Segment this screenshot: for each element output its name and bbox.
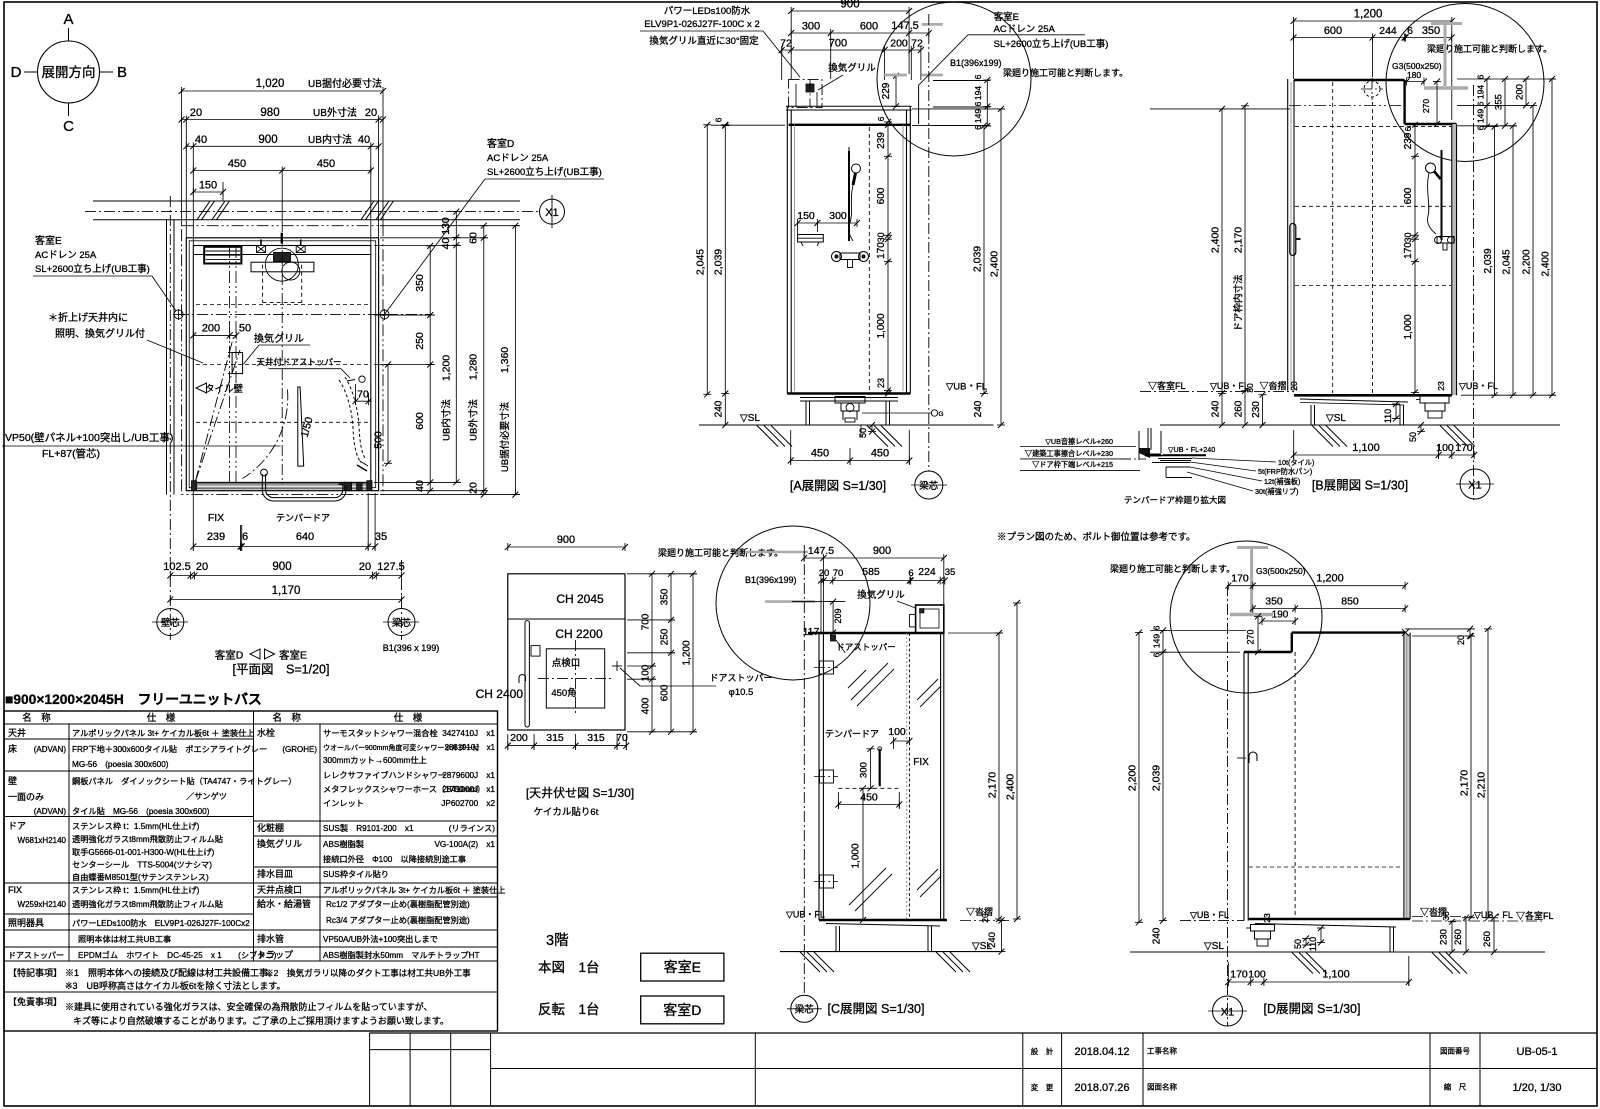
C 300 dim [870,749,872,789]
interior panel joint dashed [868,127,870,391]
C B1 beam gray [745,551,808,554]
svg-text:40: 40 [195,134,207,146]
svg-text:▽客室FL: ▽客室FL [1148,380,1186,391]
D corner mark [1402,629,1409,636]
svg-text:※2 換気ガラリ以降のダクト工事は材工共UB外工事: ※2 換気ガラリ以降のダクト工事は材工共UB外工事 [265,967,471,978]
B top dim 1200 [1294,20,1452,22]
svg-text:229: 229 [881,82,892,99]
svg-text:照明本体は材工共UB工事: 照明本体は材工共UB工事 [78,934,171,944]
svg-text:1,000: 1,000 [876,313,887,338]
svg-text:300: 300 [802,21,820,33]
svg-text:200: 200 [510,732,528,744]
table left-half horizontals [4,738,254,740]
valve brackets [257,246,266,253]
G mark at A drain [931,410,937,416]
svg-text:10t(タイル): 10t(タイル) [1278,458,1314,467]
D dim 190 [1262,620,1295,622]
svg-text:3階: 3階 [546,932,569,949]
svg-text:270: 270 [1421,99,1431,113]
svg-text:2,400: 2,400 [1541,251,1552,276]
svg-text:2,170: 2,170 [987,772,999,798]
svg-text:350: 350 [1265,596,1283,608]
D left dims 6/149/6 [1162,631,1164,653]
svg-text:排水目皿: 排水目皿 [257,868,293,879]
svg-text:図面名称: 図面名称 [1147,1082,1177,1092]
svg-text:240: 240 [973,400,984,417]
door swing arc dash-dot [243,390,288,479]
B X1 circle [1473,85,1475,500]
C cabin [808,632,944,634]
svg-text:B1(396x199): B1(396x199) [950,58,1002,68]
svg-text:▽SL: ▽SL [972,941,992,952]
D G3 beam gray [1250,547,1253,613]
svg-text:50: 50 [858,428,868,438]
plan bottom door wall gray band [196,484,368,489]
svg-text:20: 20 [196,561,208,573]
svg-text:2,210: 2,210 [1476,772,1488,798]
plan right chain C 60/1280/20 UB外寸法 [483,226,485,495]
svg-text:6: 6 [1403,126,1413,131]
svg-text:[C展開図 S=1/30]: [C展開図 S=1/30] [828,1002,925,1016]
A SL line [699,424,994,426]
svg-text:換気グリル直近に30°固定: 換気グリル直近に30°固定 [649,35,759,47]
wall panel inner lines [189,241,376,488]
svg-text:▽建築工事擦合レベル+230: ▽建築工事擦合レベル+230 [1025,449,1113,458]
svg-text:【免責事項】: 【免責事項】 [8,996,62,1007]
svg-text:ドア枠内寸法: ドア枠内寸法 [1233,274,1245,331]
svg-text:天井付ドアストッパー: 天井付ドアストッパー [256,357,341,367]
B left wall (door edge) [1287,79,1289,391]
svg-text:23: 23 [1436,381,1446,391]
svg-text:355: 355 [1494,94,1505,110]
B door handle [1290,224,1296,256]
svg-text:ケイカル貼り6t: ケイカル貼り6t [534,806,599,818]
壁芯 centerline vertical [169,196,171,640]
svg-text:センターシール TTS-5004(ツナシマ): センターシール TTS-5004(ツナシマ) [72,861,212,870]
svg-text:2,045: 2,045 [695,249,707,275]
svg-text:20: 20 [190,107,202,119]
vent duct on roof [789,79,822,107]
ceiling plan bottom dims 200/315/315/70 [508,745,627,747]
C 450 dim with dashed level [838,787,900,789]
svg-text:30: 30 [1403,232,1413,242]
shower hose dashed [339,380,361,463]
plan dim 150 [193,191,223,193]
svg-text:700: 700 [641,613,652,630]
D left dims 2200/2039 [1138,633,1140,923]
svg-text:▽沓摺: ▽沓摺 [1260,380,1287,391]
svg-text:VP50(壁パネル+100突出し/UB工事): VP50(壁パネル+100突出し/UB工事) [5,431,173,444]
svg-text:換気グリル: 換気グリル [257,838,302,849]
svg-text:ドアストッパー: ドアストッパー [836,642,896,652]
plan centerline vertical dash-dot [281,236,283,488]
svg-text:ドア: ドア [8,821,26,831]
svg-text:反転 1台: 反転 1台 [538,1002,600,1017]
svg-text:名 称: 名 称 [273,712,302,724]
svg-text:SL+2600立ち上げ(UB工事): SL+2600立ち上げ(UB工事) [35,263,150,275]
B shower set [1441,150,1443,240]
plan right chain D 1360 UB据付必要寸法 [514,226,516,495]
svg-text:2,039: 2,039 [713,249,725,275]
svg-text:72: 72 [911,38,923,50]
svg-text:50: 50 [1293,939,1303,949]
A interior dim chain [887,122,889,394]
svg-text:透明強化ガラスt8mm飛散防止フィルム貼: 透明強化ガラスt8mm飛散防止フィルム貼 [72,834,223,844]
svg-text:1,280: 1,280 [468,354,480,380]
svg-text:600: 600 [660,684,671,701]
svg-text:200: 200 [1515,84,1526,100]
svg-text:110: 110 [1383,409,1393,423]
D 270 dim [1257,616,1259,652]
svg-text:900: 900 [840,0,859,11]
svg-text:換気グリル: 換気グリル [254,332,304,345]
A drain trap [835,397,865,404]
D X1 circle [1227,585,1229,1026]
title block left small cells [369,1033,371,1106]
svg-text:／サンゲツ: ／サンゲツ [186,791,227,801]
svg-text:タイル壁: タイル壁 [205,383,244,395]
X1 grid circle (plan right) [540,199,565,224]
svg-text:水栓: 水栓 [257,727,275,738]
svg-text:[D展開図 S=1/30]: [D展開図 S=1/30] [1264,1002,1361,1016]
svg-text:▽SL: ▽SL [1326,413,1346,424]
C vent grille box [916,605,944,633]
svg-text:6: 6 [242,531,248,543]
svg-text:70: 70 [833,568,844,579]
valve A [840,253,860,260]
svg-text:本図 1台: 本図 1台 [538,960,600,975]
hook [519,675,526,683]
A left dims 2045/2039 [706,125,708,395]
ceiling plan dim 900 [508,546,625,548]
svg-text:23: 23 [876,378,886,388]
svg-text:149: 149 [1152,634,1162,648]
svg-text:レレクサファイブハンドシャワー: レレクサファイブハンドシャワー [323,770,446,780]
svg-text:UB外寸法: UB外寸法 [313,106,357,119]
svg-text:230: 230 [1251,401,1262,418]
svg-text:147.5: 147.5 [808,545,834,557]
svg-text:パワーLEDs100防水 ELV9P1-026J27F-10: パワーLEDs100防水 ELV9P1-026J27F-100Cx2 [72,918,250,928]
D cabin ceiling with step [1244,651,1292,653]
svg-text:(ADVAN): (ADVAN) [34,807,67,816]
B bottom level labels [1140,391,1294,393]
svg-text:CH 2045: CH 2045 [556,592,604,606]
shower head A [852,164,861,173]
plan dim 20/980/20 UB外寸法 [182,119,383,121]
dim 150/300 A [798,222,857,224]
compass tick A [68,28,70,41]
svg-text:240: 240 [714,400,725,417]
svg-text:5t(FRP防水パン): 5t(FRP防水パン) [1258,467,1312,476]
客室E box [641,953,724,981]
svg-text:260: 260 [1482,931,1493,947]
svg-text:1,200: 1,200 [1316,573,1344,585]
svg-text:壁: 壁 [8,775,17,786]
D interior dashed [1294,652,1296,919]
svg-text:147.5: 147.5 [891,20,919,32]
svg-text:40: 40 [358,134,370,146]
svg-text:1,200: 1,200 [1354,9,1383,21]
svg-text:梁廻り施工可能と判断します。: 梁廻り施工可能と判断します。 [1003,67,1128,78]
table verticals [68,724,70,961]
svg-text:239: 239 [876,132,887,149]
svg-text:35: 35 [945,567,956,578]
drain channel line along top [193,254,370,256]
wall hatch marks left [197,201,210,220]
B interior chain [1414,125,1416,393]
svg-text:G: G [938,411,943,418]
svg-text:図面番号: 図面番号 [1440,1046,1470,1056]
svg-text:20: 20 [1456,635,1466,645]
C top dim 147.5/900 [804,557,944,559]
C 209 dim [832,602,834,633]
layer leaders [1192,458,1276,462]
svg-text:900: 900 [258,134,277,146]
svg-text:(GROHE): (GROHE) [282,745,317,754]
svg-text:UB-05-1: UB-05-1 [1517,1046,1558,1058]
svg-text:6: 6 [1407,25,1413,37]
svg-text:240: 240 [1211,400,1222,417]
plan dim 450/450 [193,170,370,172]
svg-text:239: 239 [207,531,225,543]
floor layer lines [1146,455,1206,457]
inspection hatch 450角 [546,649,604,708]
svg-text:アルポリックパネル 3t+ ケイカル板6t ＋ 塗装仕上: アルポリックパネル 3t+ ケイカル板6t ＋ 塗装仕上 [72,728,254,738]
svg-text:梁芯: 梁芯 [919,480,939,492]
svg-text:A: A [63,11,73,28]
svg-text:20: 20 [468,482,480,494]
svg-text:2,170: 2,170 [1459,770,1471,796]
svg-text:980: 980 [260,107,279,119]
svg-text:350: 350 [660,588,671,605]
500 dim interior [387,365,389,464]
interior ceiling thick line [789,124,911,126]
svg-text:35: 35 [375,531,387,543]
svg-text:VG-100A(2) x1: VG-100A(2) x1 [434,840,495,849]
UB envelope rect (dash-dot-dot) [182,226,383,495]
C dim 20/70/585/6/224/35 [821,580,945,582]
wall hatch marks right [361,201,374,220]
svg-text:20: 20 [819,568,830,579]
svg-text:6: 6 [876,116,886,121]
壁芯 grid circle [157,609,184,636]
svg-text:UB外寸法: UB外寸法 [468,399,480,441]
door stopper cross [612,665,622,667]
ドアストッパー φ10.5 leader [620,668,640,686]
svg-text:取手G5666-01-001-H300-W(HL仕上げ): 取手G5666-01-001-H300-W(HL仕上げ) [72,847,215,857]
svg-text:209: 209 [833,608,843,623]
A right dims 2039/2400 [983,126,985,394]
svg-text:224: 224 [918,566,936,578]
spec table frame [4,711,498,1031]
D walls [1405,634,1410,918]
svg-text:6: 6 [908,568,913,579]
C hinges [820,661,834,674]
svg-text:50: 50 [239,323,251,335]
svg-text:127.5: 127.5 [377,561,405,573]
C glass hatch marks FIX [917,679,938,700]
svg-text:2,200: 2,200 [1127,765,1139,791]
svg-text:客室E: 客室E [664,959,701,975]
C glass hatch marks door [851,663,888,700]
svg-text:UB内寸法: UB内寸法 [308,133,352,146]
svg-text:270: 270 [1246,629,1256,644]
svg-text:テンパードア枠廻り拡大図: テンパードア枠廻り拡大図 [1124,495,1226,505]
A bottom dim 450/450 [791,460,910,462]
svg-text:※3 UB呼称高さはケイカル板6tを除く寸法とします。: ※3 UB呼称高さはケイカル板6tを除く寸法とします。 [65,980,285,991]
wall centerline dash-dot to X1 [85,211,540,213]
svg-text:6: 6 [973,74,983,79]
svg-text:UB内寸法: UB内寸法 [441,399,453,441]
elevation A dim 72/700/200/72 [782,49,921,51]
svg-text:194: 194 [1476,85,1486,99]
svg-text:タイル貼 MG-56 (poesia 300x600): タイル貼 MG-56 (poesia 300x600) [72,806,210,816]
svg-text:天井: 天井 [8,727,26,738]
svg-text:換気グリル: 換気グリル [857,589,905,601]
svg-text:ACドレン 25A: ACドレン 25A [487,153,549,164]
梁芯 grid circle [388,609,415,636]
svg-text:変 更: 変 更 [1031,1082,1054,1092]
C door stopper black dot [831,635,836,641]
svg-text:1/20, 1/30: 1/20, 1/30 [1513,1082,1562,1094]
svg-text:2,400: 2,400 [1005,774,1017,800]
B bottom dims 1100/100/170 [1294,454,1475,456]
svg-text:100: 100 [1248,969,1266,981]
door open direction arrow [337,482,346,487]
tempered door frame detail [1138,431,1140,460]
svg-text:ドアストッパー: ドアストッパー [8,951,64,960]
svg-text:12t(補強板): 12t(補強板) [1264,477,1300,486]
svg-text:315: 315 [546,732,564,744]
svg-text:2879600J x1: 2879600J x1 [442,771,495,780]
svg-text:φ10.5: φ10.5 [729,687,754,698]
A floor [787,392,910,395]
C detail circle [716,526,870,680]
C 1000 dim [862,788,864,920]
svg-text:239: 239 [1403,132,1414,149]
ceiling slab lines [786,105,912,107]
svg-text:700: 700 [829,38,847,50]
svg-text:1,170: 1,170 [272,585,301,597]
svg-text:Rc1/2 アダプター止め(裏樹脂配管別途): Rc1/2 アダプター止め(裏樹脂配管別途) [326,899,470,909]
svg-text:600: 600 [876,187,887,204]
D SL [1130,951,1545,953]
svg-text:設 計: 設 計 [1031,1046,1054,1056]
svg-text:600: 600 [414,412,426,430]
svg-text:2,039: 2,039 [1151,765,1163,791]
svg-text:30t(補強リブ): 30t(補強リブ) [1255,487,1299,496]
ceiling plan outer rect [508,574,625,730]
A floor legs [805,401,807,425]
compass tick D [24,71,38,73]
svg-text:壁芯: 壁芯 [161,617,181,629]
elevation A extension lines [781,46,783,80]
svg-text:ACドレン 25A: ACドレン 25A [994,24,1056,35]
svg-text:▽SL: ▽SL [740,413,760,424]
svg-text:1,100: 1,100 [1322,969,1350,981]
elevation A top dim 900 [791,10,909,12]
svg-text:客室D: 客室D [487,137,514,150]
svg-text:天井点検口: 天井点検口 [257,884,302,895]
door swing line dash-dot [196,338,234,482]
svg-text:30: 30 [1245,383,1255,393]
door handle U-shape plan [262,474,346,501]
svg-text:化粧棚: 化粧棚 [257,822,284,833]
svg-text:W259xH2140: W259xH2140 [18,900,67,909]
D top dims 170/1200 [1228,585,1405,587]
svg-text:ABS樹脂製封水50mm マルチトラップHT: ABS樹脂製封水50mm マルチトラップHT [323,950,479,960]
svg-text:接続口外径 Φ100 以降接続別途工事: 接続口外径 Φ100 以降接続別途工事 [323,854,466,864]
svg-text:6: 6 [1152,625,1162,630]
svg-text:2841000J x1: 2841000J x1 [442,785,495,794]
svg-text:ACドレン 25A: ACドレン 25A [35,250,97,261]
svg-text:ABS樹脂製: ABS樹脂製 [323,839,364,849]
svg-text:(ADVAN): (ADVAN) [34,745,67,754]
svg-text:仕 様: 仕 様 [147,712,176,724]
svg-text:SUS製 R9101-200 x1: SUS製 R9101-200 x1 [323,823,414,833]
svg-text:450: 450 [811,448,829,460]
svg-text:300: 300 [829,210,847,222]
svg-text:SL+2600立ち上げ(UB工事): SL+2600立ち上げ(UB工事) [994,38,1109,50]
svg-text:トラップ: トラップ [257,950,293,960]
compass 展開方向 circle [38,41,100,103]
svg-text:850: 850 [1341,596,1359,608]
plan view top dimension 1,020 UB据付必要寸法 [182,90,383,92]
svg-text:▽UB・FL: ▽UB・FL [946,382,987,393]
svg-text:230: 230 [1439,929,1450,945]
svg-text:3427410J x1: 3427410J x1 [442,729,495,738]
C right dims 2170/2400 [998,633,1000,919]
svg-text:149: 149 [1476,109,1486,123]
svg-text:ステンレス枠 t：1.5mm(HL仕上げ): ステンレス枠 t：1.5mm(HL仕上げ) [72,821,200,831]
B SL line [1160,424,1560,426]
svg-text:260: 260 [1453,929,1464,945]
svg-text:▽UB・FL: ▽UB・FL [1190,910,1229,920]
svg-text:2,400: 2,400 [989,251,1001,277]
svg-text:150: 150 [199,180,217,192]
svg-text:450: 450 [871,448,889,460]
svg-text:客室E: 客室E [994,11,1019,23]
svg-text:150: 150 [797,210,815,222]
svg-text:70: 70 [357,389,369,401]
svg-text:パワーLEDs100防水: パワーLEDs100防水 [664,5,751,17]
svg-text:X1: X1 [1468,480,1481,492]
svg-text:260: 260 [1234,400,1245,417]
UB outer wall rect [186,238,378,491]
svg-text:【特記事項】: 【特記事項】 [8,967,62,978]
svg-text:[B展開図 S=1/30]: [B展開図 S=1/30] [1312,479,1408,493]
B right chains [1486,79,1488,127]
svg-text:500: 500 [373,431,385,449]
plan interior dashed grid lines [196,304,371,306]
svg-text:UB据付必要寸法: UB据付必要寸法 [499,402,511,472]
svg-text:102.5: 102.5 [163,561,191,573]
svg-text:1,200: 1,200 [441,355,453,381]
shower valve assembly plan [281,233,283,244]
svg-text:170: 170 [1403,242,1414,259]
svg-text:ELV9P1-026J27F-100C x 2: ELV9P1-026J27F-100C x 2 [644,19,759,30]
svg-text:194: 194 [973,86,983,100]
room inner rect 900x1200 [193,246,370,483]
svg-text:40: 40 [414,480,426,492]
A 梁芯 circle [915,471,943,499]
svg-text:※プラン図のため、ボルト御位置は参考です。: ※プラン図のため、ボルト御位置は参考です。 [997,531,1196,543]
AC drain symbol left [174,310,183,319]
B cabin ceiling with step [1294,79,1405,81]
svg-text:Rc3/4 アダプター止め(裏樹脂配管別途): Rc3/4 アダプター止め(裏樹脂配管別途) [326,915,470,925]
svg-text:▽UB音擦レベル+260: ▽UB音擦レベル+260 [1045,437,1113,446]
svg-text:110: 110 [1308,937,1318,951]
